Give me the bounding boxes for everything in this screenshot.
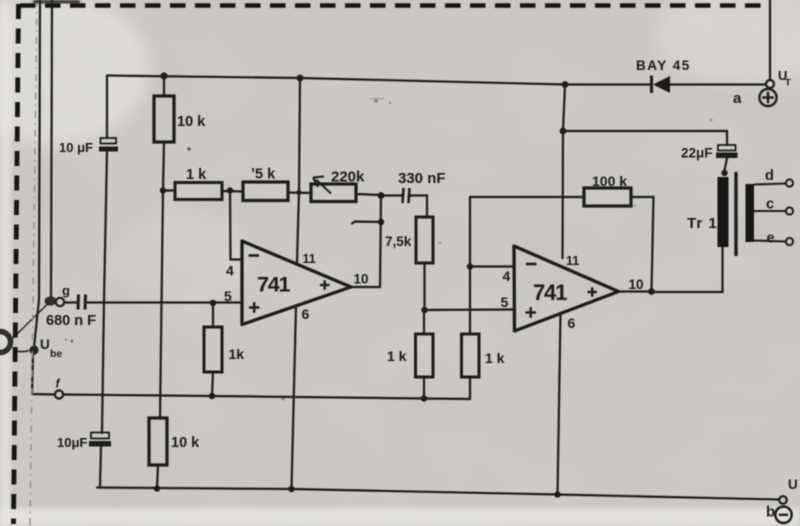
terminal b circle small xyxy=(779,496,787,504)
wire diode to terminal a xyxy=(669,83,766,85)
diode D1 BAY45 xyxy=(652,76,671,94)
svg-text:5: 5 xyxy=(224,288,232,304)
svg-text:741: 741 xyxy=(257,273,291,297)
node top rail / R1 xyxy=(160,72,167,79)
wire U1 pin4 from node D xyxy=(230,191,242,260)
capacitor C5 22uF polarized xyxy=(716,145,738,158)
node U1 pin5 / R5 xyxy=(210,300,216,306)
resistor R6 7.5k xyxy=(416,217,433,263)
svg-text:100 k: 100 k xyxy=(592,173,627,189)
resistor R3 5k xyxy=(243,182,288,201)
node transformer primary top xyxy=(721,170,727,176)
op-amp U2 741 triangle xyxy=(514,246,619,331)
wire R3 to R4 xyxy=(288,191,311,194)
svg-text:7,5k: 7,5k xyxy=(385,234,412,249)
terminal a circle small xyxy=(766,80,774,88)
capacitor C2 680nF xyxy=(78,295,86,310)
op-amp U1 741 triangle xyxy=(242,241,351,325)
node bottom rail / R10 xyxy=(154,485,160,491)
resistor R4 220k potentiometer xyxy=(311,184,356,202)
svg-text:11: 11 xyxy=(303,252,316,266)
transformer Tr1 secondary winding xyxy=(746,184,755,242)
input connector lead to U_be xyxy=(13,350,29,352)
wire R10 bottom to bottom rail xyxy=(157,465,158,489)
node B R1-R2 junction xyxy=(160,187,166,193)
svg-text:1 k: 1 k xyxy=(387,348,407,364)
terminal a plus circle xyxy=(759,89,776,106)
svg-text:5: 5 xyxy=(501,294,509,310)
wire R8 bottom lead xyxy=(469,377,471,399)
wire R6 bottom to node E xyxy=(423,263,425,310)
wire 100k right to U2 output xyxy=(631,197,654,292)
svg-text:ʼ5 k: ʼ5 k xyxy=(251,167,276,183)
node U2 pin4 junction xyxy=(467,263,473,269)
node bottom rail / U1 pin6 xyxy=(288,486,294,492)
node U_be solder dot xyxy=(29,345,38,354)
node common rail / R5 xyxy=(209,393,215,399)
wire R4 to node C xyxy=(356,194,381,195)
wire U_be branch upper xyxy=(34,0,40,347)
wire input to U1 pin 5 xyxy=(88,301,243,303)
svg-text:330 nF: 330 nF xyxy=(398,170,446,187)
wire g branch from top xyxy=(51,0,52,297)
wire R5 top lead xyxy=(212,303,214,327)
svg-text:1k: 1k xyxy=(229,346,245,362)
terminal b minus circle xyxy=(775,507,791,523)
resistor R2 1k xyxy=(175,183,222,200)
wire R1 bottom lead to node B xyxy=(163,142,164,191)
transformer Tr1 tap c wire xyxy=(754,210,786,212)
svg-text:10 μF: 10 μF xyxy=(59,140,93,155)
svg-text:1 k: 1 k xyxy=(485,350,505,366)
svg-text:U: U xyxy=(40,337,50,352)
wire C5 to transformer primary xyxy=(724,158,727,173)
wire node C to C3 xyxy=(381,194,402,196)
svg-text:T: T xyxy=(785,78,791,89)
transformer Tr1 primary winding xyxy=(718,177,729,247)
resistor R5 1k xyxy=(204,327,222,372)
resistor R8 1k xyxy=(462,334,480,377)
svg-text:22μF: 22μF xyxy=(681,146,713,161)
terminal f circle xyxy=(55,390,63,398)
svg-text:e: e xyxy=(767,231,775,247)
svg-text:4: 4 xyxy=(226,263,234,279)
wire U2 output to node F xyxy=(619,290,652,292)
svg-text:220k: 220k xyxy=(331,169,365,186)
op-amp U2 plus sign input xyxy=(526,307,537,318)
wire R7 top lead xyxy=(423,310,425,334)
svg-text:6: 6 xyxy=(302,306,310,322)
op-amp U2 minus sign xyxy=(526,263,537,266)
svg-text:BAY 45: BAY 45 xyxy=(636,58,691,73)
node top rail / U2 supply xyxy=(562,81,569,88)
svg-text:10μF: 10μF xyxy=(57,435,87,450)
svg-text:c: c xyxy=(766,197,774,213)
wire common rail from terminal f xyxy=(63,395,470,400)
svg-text:6: 6 xyxy=(568,315,576,331)
wire 100k left feed xyxy=(470,196,584,198)
terminal e circle xyxy=(786,238,793,245)
op-amp U1 plus sign input xyxy=(249,302,260,313)
node 22uF branch junction xyxy=(560,128,567,135)
svg-text:ˈ: ˈ xyxy=(64,337,68,349)
svg-text:10 k: 10 k xyxy=(171,435,200,451)
op-amp U1 minus sign xyxy=(249,254,260,257)
fold crease dash-dot line xyxy=(30,0,37,526)
terminal g circle xyxy=(56,298,64,306)
terminal c circle xyxy=(786,207,793,214)
wire node F to transformer primary bottom xyxy=(652,247,723,292)
wire node E to U2 pin 5 xyxy=(425,308,515,311)
node bottom rail / U2 pin6 xyxy=(554,491,560,497)
wire 10k R1 top lead xyxy=(163,76,165,96)
node wiper stub junction xyxy=(378,219,384,225)
transformer Tr1 tap d wire xyxy=(754,184,786,185)
resistor R9 100k xyxy=(584,188,631,206)
wire supply drop to op-amp U1 pin 11 xyxy=(297,78,300,262)
op-amp U2 plus sign output side xyxy=(588,287,598,296)
node R3-R4 supply crossing xyxy=(296,190,301,195)
wire supply drop to U2 pin 11 xyxy=(563,85,566,259)
resistor R7 1k xyxy=(416,334,434,377)
wire left rail C1 to C4 xyxy=(102,152,107,433)
wire top rail xyxy=(107,76,651,85)
wire bottom rail xyxy=(97,488,779,500)
capacitor C1 10uF polarized xyxy=(99,138,118,152)
svg-text:1 k: 1 k xyxy=(186,167,207,183)
capacitor C4 10uF polarized xyxy=(89,433,111,447)
node top rail / U1 supply xyxy=(297,75,304,82)
node E R6/R7/U2 pin5 xyxy=(421,307,427,313)
wire U2 pin4 stub xyxy=(470,265,514,267)
scan artifact top edge mark xyxy=(33,0,80,4)
svg-text:680 n F: 680 n F xyxy=(46,313,96,329)
resistor R10 10k xyxy=(149,418,167,465)
wire R7 bottom lead xyxy=(423,377,425,399)
dashed frame left edge xyxy=(14,4,19,524)
terminal g solder smudge xyxy=(45,296,57,305)
wire left rail down from top rail to 10uF C1 xyxy=(106,76,108,139)
svg-text:10: 10 xyxy=(629,277,644,292)
wire R8 riser to 100k rail xyxy=(469,197,471,334)
terminal d circle xyxy=(786,179,793,186)
wire U_be down to terminal f xyxy=(32,353,55,395)
wire terminal a drop from top edge xyxy=(769,0,771,80)
wire node B chain down to R10 xyxy=(160,191,163,419)
wire R5 bottom lead xyxy=(212,372,213,396)
dashed frame top edge xyxy=(20,3,763,8)
op-amp U1 plus sign output side xyxy=(320,280,330,289)
node C R4 output xyxy=(378,192,385,199)
svg-text:10 k: 10 k xyxy=(177,114,206,130)
input connector lead to g xyxy=(12,303,49,340)
svg-text:741: 741 xyxy=(533,280,567,305)
wire node B to R2 xyxy=(163,189,175,191)
wire wiper stub of R4 xyxy=(352,222,381,224)
wire U2 pin 6 down to bottom rail xyxy=(558,314,561,495)
svg-text:be: be xyxy=(50,348,62,360)
svg-text:d: d xyxy=(765,168,774,184)
wire U1 pin 6 down to bottom rail xyxy=(292,306,297,489)
wire R2 to R3 xyxy=(222,190,243,193)
transformer Tr1 core xyxy=(734,172,737,256)
input connector ring xyxy=(0,332,11,353)
node D R2-R3 junction xyxy=(227,187,233,193)
resistor R1 10k xyxy=(154,96,174,142)
svg-text:Tr 1: Tr 1 xyxy=(687,215,718,232)
svg-text:b: b xyxy=(766,504,775,521)
node common rail / R7 xyxy=(421,395,427,401)
svg-text:a: a xyxy=(733,90,742,107)
scan specks xyxy=(71,98,713,400)
wire U1 output to feedback riser xyxy=(351,196,381,288)
svg-text:U: U xyxy=(788,477,798,492)
potentiometer R4 wiper arrow xyxy=(313,177,331,194)
transformer Tr1 tap e wire xyxy=(754,241,786,242)
svg-text:g: g xyxy=(62,283,70,298)
wire 22uF branch xyxy=(563,131,727,145)
node F U2 output junction xyxy=(648,288,655,295)
svg-text:4: 4 xyxy=(503,268,511,284)
capacitor C3 330nF xyxy=(403,188,410,203)
svg-text:11: 11 xyxy=(566,254,579,268)
wire C4 to bottom rail xyxy=(100,446,101,488)
wire terminal g to C2 xyxy=(64,301,76,303)
wire C3 to corner into R6 xyxy=(410,196,428,218)
svg-text:10: 10 xyxy=(354,272,369,287)
